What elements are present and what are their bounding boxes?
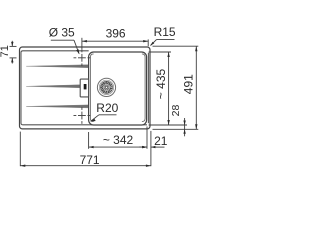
- bowl inner contour left: [90, 54, 93, 122]
- svg-text:71: 71: [0, 45, 11, 57]
- drainer groove 2: [26, 85, 80, 88]
- svg-text:R20: R20: [96, 101, 118, 115]
- svg-text:771: 771: [80, 153, 100, 167]
- drainer groove 1: [26, 65, 88, 68]
- dim 28 line: [184, 118, 186, 136]
- svg-text:~ 342: ~ 342: [103, 133, 134, 147]
- dim Ø35 leader: [51, 40, 79, 53]
- overflow slot: [80, 79, 88, 97]
- dim 342 line: [89, 127, 147, 149]
- bowl inner contour right: [142, 54, 145, 122]
- dim 435 line: [149, 52, 187, 125]
- dim 491 line: [153, 46, 199, 129]
- alternate tap hole cross: [74, 107, 91, 124]
- drainer groove 3: [26, 105, 88, 108]
- sink rim inner line right part: [147, 53, 149, 123]
- dim 771 line: [20, 131, 151, 166]
- dim R20 leader: [91, 115, 117, 121]
- dim 396 line: [82, 38, 148, 50]
- svg-text:21: 21: [154, 134, 168, 148]
- svg-text:491: 491: [181, 74, 195, 94]
- tap hole cross: [74, 50, 91, 66]
- svg-text:396: 396: [106, 26, 126, 40]
- svg-text:R15: R15: [154, 25, 176, 39]
- dim 71 line: [10, 41, 17, 64]
- sink rim inner line drainer part: [21, 51, 147, 125]
- svg-text:~ 435: ~ 435: [154, 68, 168, 99]
- svg-text:28: 28: [170, 105, 182, 117]
- svg-text:Ø 35: Ø 35: [49, 26, 75, 40]
- dim 21 line: [139, 146, 164, 148]
- bowl outer contour: [89, 52, 147, 125]
- dim R15 leader: [151, 40, 175, 46]
- sink outer outline: [20, 47, 151, 129]
- drain strainer: [97, 78, 115, 96]
